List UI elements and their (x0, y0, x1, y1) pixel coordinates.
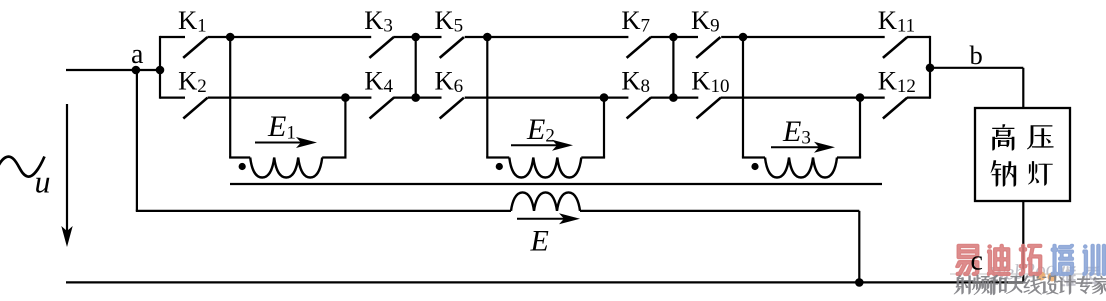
switch K3 blade (369, 37, 393, 58)
switch K11 blade (883, 37, 907, 58)
switch K9 blade (696, 37, 720, 58)
wire lamp bottom lead (1022, 201, 1024, 282)
winding E1 coil (250, 158, 322, 178)
switch K12 blade (883, 98, 907, 119)
wire node a down to primary (136, 70, 138, 211)
junction dot E3 right (856, 93, 865, 102)
arrow E direction (517, 218, 566, 220)
wire E1 coil stubs (229, 156, 250, 158)
wire E1 left lead (229, 37, 231, 158)
lamp text line1 高压 (992, 124, 1014, 150)
voltage direction arrow (66, 104, 68, 240)
switch K2 blade (183, 98, 207, 119)
tie wire between K3/K4 and K5/K6 (415, 37, 417, 98)
wire top row (721, 36, 885, 38)
switch K10 blade (697, 98, 721, 119)
svg-text:E: E (530, 225, 549, 258)
wire bottom row (208, 96, 372, 98)
arrow E3 direction (771, 146, 821, 148)
junction dot E2 left (483, 33, 492, 42)
winding E primary coil (511, 192, 580, 211)
switch K5 blade (440, 37, 464, 58)
junction dot (669, 33, 678, 42)
wire top row (160, 36, 185, 38)
bracket wire joining K1/K2 rows (159, 36, 161, 99)
svg-text:a: a (131, 39, 144, 70)
wire primary left segment (136, 210, 511, 212)
wire K11/K12 outputs to node b (929, 36, 931, 99)
wire bottom row (465, 96, 629, 98)
wire from source to node a (66, 69, 161, 71)
svg-text:u: u (35, 164, 51, 200)
transformer core line (230, 183, 882, 185)
switch K4 blade (370, 98, 394, 119)
wire node b to lamp (930, 67, 1023, 69)
wire top row (907, 36, 930, 38)
wire primary down to bottom rail (858, 211, 860, 283)
junction dot (669, 93, 678, 102)
junction dot E2 right (600, 93, 609, 102)
wire E2 right lead (603, 98, 605, 158)
wire bottom row (393, 96, 441, 98)
winding E2 coil (509, 158, 581, 178)
junction dot E1 left (226, 33, 235, 42)
wire bottom row (160, 96, 185, 98)
AC source sine symbol (0, 157, 45, 177)
junction dot (411, 33, 420, 42)
wire bottom rail (66, 281, 1023, 283)
node a junction dot (132, 66, 141, 75)
switch K6 blade (440, 98, 464, 119)
wire bottom row (721, 96, 885, 98)
wire top row (651, 36, 698, 38)
wire E2 coil stubs (486, 156, 509, 158)
arrow E1 direction (255, 142, 303, 144)
svg-text:c: c (971, 245, 983, 276)
polarity dot E1 (239, 163, 246, 170)
junction dot (411, 93, 420, 102)
junction dot bottom rail (855, 278, 864, 287)
wire top row (207, 36, 371, 38)
lamp text line2 钠灯 (990, 160, 1016, 186)
wire E3 coil stubs (742, 156, 765, 158)
watermark red 易迪拓 (956, 244, 979, 275)
polarity dot E2 (496, 163, 503, 170)
wire E3 right lead (859, 98, 861, 158)
wire E2 left lead (486, 37, 488, 158)
watermark underline (950, 273, 1106, 275)
arrow E2 direction (511, 144, 559, 146)
switch K1 blade (183, 37, 207, 58)
watermark blue 培训 (1051, 244, 1073, 275)
svg-text:b: b (970, 40, 983, 70)
winding E3 coil (765, 158, 837, 178)
tie wire between K7/K8 and K9/K10 (672, 37, 674, 98)
lamp box (high pressure sodium lamp) (975, 108, 1070, 201)
junction dot at switch bracket (156, 66, 165, 75)
junction dot E3 left (739, 33, 748, 42)
polarity dot E3 (751, 163, 758, 170)
wire top row (465, 36, 629, 38)
watermark 维库 (1061, 266, 1076, 286)
wire bottom row (907, 96, 930, 98)
watermark orange dots (1037, 272, 1046, 281)
wire lamp top lead (1022, 68, 1024, 109)
switch K8 blade (627, 98, 651, 119)
junction dot E1 right (341, 93, 350, 102)
node b junction dot (926, 64, 935, 73)
watermark gray 射频和天线设计专家 (954, 276, 973, 295)
wire E3 left lead (742, 37, 744, 158)
wire primary right segment (580, 210, 859, 212)
wire bottom row (651, 96, 699, 98)
wire top row (393, 36, 441, 38)
wire E1 right lead (344, 98, 346, 158)
switch K7 blade (627, 37, 651, 58)
